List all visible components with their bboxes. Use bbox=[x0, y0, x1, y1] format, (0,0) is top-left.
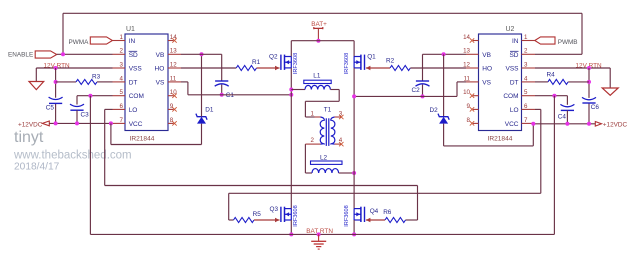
net label BAT RTN bbox=[306, 228, 333, 235]
svg-text:COM: COM bbox=[503, 93, 518, 100]
wire R1 to Q2 gate bbox=[257, 66, 280, 70]
svg-text:4: 4 bbox=[120, 75, 124, 82]
inductor L1 bbox=[304, 73, 331, 90]
transistor Q2 IRF3608 bbox=[269, 53, 299, 74]
U2 left pin labels bbox=[482, 52, 492, 87]
svg-text:C3: C3 bbox=[81, 112, 90, 119]
svg-text:7: 7 bbox=[120, 117, 124, 124]
capacitor C5 bbox=[46, 97, 63, 111]
wire line A LO gate drive to Q4 bbox=[105, 186, 418, 221]
wire BAT RTN rail bbox=[90, 233, 554, 235]
svg-text:IR21844: IR21844 bbox=[488, 135, 513, 142]
svg-text:Q3: Q3 bbox=[270, 206, 279, 213]
svg-text:VB: VB bbox=[156, 52, 165, 59]
wire COM down to BAT RTN rail bbox=[89, 96, 91, 235]
junction COM net bbox=[88, 94, 92, 98]
svg-text:IR21844: IR21844 bbox=[130, 135, 155, 142]
junction C5 on +12VDC rail bbox=[54, 121, 58, 125]
svg-text:13: 13 bbox=[463, 48, 470, 55]
junction C4 on +12VDC right rail bbox=[565, 122, 569, 126]
junction D1 on VB net bbox=[200, 52, 204, 56]
junction D2 feed on +12VDC right rail bbox=[531, 122, 535, 126]
wire vertical A 12V RTN down through C5 to +12VDC rail bbox=[55, 68, 57, 123]
svg-text:VSS: VSS bbox=[505, 66, 519, 73]
junction C3 on +12VDC rail bbox=[75, 121, 79, 125]
wire R2 to U2 pin 12 HO bbox=[410, 67, 466, 69]
wire C1 to VS net bbox=[221, 85, 223, 95]
svg-text:8: 8 bbox=[170, 117, 174, 124]
svg-text:L1: L1 bbox=[313, 73, 321, 80]
port PWMA bbox=[69, 37, 113, 46]
svg-text:PWMB: PWMB bbox=[558, 39, 578, 46]
wire U2 pin 2 to ENABLE rail bbox=[535, 53, 582, 55]
svg-text:R1: R1 bbox=[252, 59, 261, 66]
svg-text:VB: VB bbox=[482, 52, 491, 59]
capacitor C3 bbox=[70, 104, 89, 119]
svg-text:C4: C4 bbox=[558, 113, 567, 120]
ground arrow 12V RTN left bbox=[29, 82, 44, 90]
port ENABLE bbox=[8, 51, 57, 59]
svg-text:U2: U2 bbox=[506, 26, 515, 33]
wire Q2 source column down to Q3 drain bbox=[290, 68, 292, 209]
svg-text:7: 7 bbox=[524, 117, 528, 124]
wire COM right down to BAT RTN rail bbox=[553, 96, 555, 235]
wire R3 left bbox=[56, 81, 76, 83]
svg-text:U1: U1 bbox=[126, 26, 135, 33]
svg-text:Q4: Q4 bbox=[370, 208, 379, 215]
junction VS right at Q1 source column bbox=[352, 94, 356, 98]
power arrow +12VDC right bbox=[595, 122, 601, 127]
svg-text:C5: C5 bbox=[46, 104, 55, 111]
capacitor C4 bbox=[558, 104, 575, 120]
resistor R6 bbox=[383, 209, 405, 222]
junction 12V RTN / vertical A bbox=[54, 66, 58, 70]
svg-text:IRF3608: IRF3608 bbox=[344, 205, 350, 226]
junction C2 on VS right net bbox=[421, 94, 425, 98]
junction COM right net bbox=[552, 94, 556, 98]
T1 pin 4 stub no-connect bbox=[335, 137, 344, 146]
wire U1 pin 6 LO to line A bbox=[105, 109, 113, 185]
junction R4 to vertical B bbox=[587, 80, 591, 84]
svg-text:11: 11 bbox=[170, 75, 177, 82]
junction D1 feed on +12VDC rail bbox=[109, 121, 113, 125]
svg-text:6: 6 bbox=[120, 103, 124, 110]
U2 no-connect marks pins 14 10 9 8 bbox=[470, 38, 474, 125]
wire U1 pin 5 COM left bbox=[77, 96, 113, 105]
diode D2 zener bootstrap bbox=[430, 107, 450, 124]
svg-text:VSS: VSS bbox=[129, 66, 143, 73]
wire +12VDC to D1 anode bbox=[111, 123, 202, 144]
svg-text:3: 3 bbox=[120, 61, 124, 68]
svg-text:1: 1 bbox=[310, 111, 314, 118]
svg-text:LO: LO bbox=[510, 107, 519, 114]
wire R2 to Q1 gate bbox=[366, 66, 390, 70]
watermark tinyt bbox=[14, 129, 44, 146]
wire R3 to U1 pin 4 DT bbox=[97, 81, 113, 83]
junction Q3 source on BAT RTN bbox=[289, 232, 293, 236]
svg-text:R6: R6 bbox=[383, 209, 392, 216]
svg-text:2: 2 bbox=[524, 48, 528, 55]
svg-text:C6: C6 bbox=[591, 104, 600, 111]
wire D2 cathode up to VB right bbox=[443, 54, 445, 116]
svg-text:L2: L2 bbox=[320, 155, 328, 162]
svg-text:Q1: Q1 bbox=[367, 53, 376, 60]
svg-text:+12VDC: +12VDC bbox=[603, 121, 628, 128]
wire BAT+ rail bbox=[291, 41, 354, 57]
svg-text:ENABLE: ENABLE bbox=[8, 52, 33, 59]
capacitor C1 bbox=[215, 81, 235, 99]
svg-text:BAT+: BAT+ bbox=[311, 21, 327, 28]
svg-text:3: 3 bbox=[524, 61, 528, 68]
svg-text:10: 10 bbox=[463, 89, 470, 96]
svg-text:1: 1 bbox=[524, 34, 528, 41]
wire U2 pin 7 VCC to +12VDC right bbox=[535, 123, 595, 125]
ground BAT RTN earth symbol bbox=[311, 234, 326, 249]
junction L2 on Q1 source column bbox=[352, 171, 356, 175]
svg-text:DT: DT bbox=[129, 79, 138, 86]
wire U2 pin 13 VB to C2 bbox=[423, 54, 467, 81]
power arrow +12VDC left bbox=[42, 121, 49, 126]
capacitor C6 bbox=[582, 97, 599, 110]
T1 pin 2 stub bbox=[305, 137, 320, 144]
junction ground on BAT RTN bbox=[317, 232, 321, 236]
inductor L2 bbox=[311, 155, 343, 173]
svg-text:11: 11 bbox=[464, 75, 471, 82]
junction 12V RTN / vertical B right bbox=[587, 66, 591, 70]
wire L2 right to Q1 source column bbox=[339, 172, 355, 174]
svg-text:R3: R3 bbox=[92, 73, 101, 80]
svg-text:9: 9 bbox=[467, 103, 471, 110]
wire T1 pin 2 down to L2 bbox=[305, 144, 312, 173]
T1 pin 3 stub no-connect bbox=[335, 111, 344, 120]
svg-text:1: 1 bbox=[120, 34, 124, 41]
resistor R3 bbox=[76, 73, 101, 84]
U1 right pin labels bbox=[155, 52, 165, 87]
diode D1 zener bootstrap bbox=[196, 107, 214, 124]
junction D2 on VB right net bbox=[442, 52, 446, 56]
port PWMB bbox=[535, 37, 578, 46]
svg-text:IRF3608: IRF3608 bbox=[344, 53, 350, 74]
junction C6 on +12VDC right rail bbox=[587, 122, 591, 126]
capacitor C2 bbox=[412, 81, 430, 94]
svg-text:VCC: VCC bbox=[129, 121, 143, 128]
wire line B LO gate drive to Q3 bbox=[229, 193, 541, 220]
svg-text:PWMA: PWMA bbox=[69, 39, 90, 46]
wire L1 left bbox=[291, 89, 305, 91]
wire Q3 source to BAT RTN rail bbox=[290, 220, 292, 234]
svg-text:DT: DT bbox=[510, 79, 519, 86]
svg-text:tinyt: tinyt bbox=[14, 129, 44, 146]
U1 pin numbers right 8-14 bbox=[170, 34, 177, 124]
wire Q1 source column down to Q4 drain bbox=[353, 68, 355, 209]
svg-text:HO: HO bbox=[155, 66, 165, 73]
svg-text:2: 2 bbox=[310, 137, 314, 144]
svg-text:VCC: VCC bbox=[505, 121, 519, 128]
U1 pin numbers left 1-7 bbox=[120, 34, 124, 124]
junction C1 on VS net bbox=[220, 93, 224, 97]
svg-text:VS: VS bbox=[156, 79, 165, 86]
svg-text:4: 4 bbox=[524, 75, 528, 82]
svg-text:2018/4/17: 2018/4/17 bbox=[14, 162, 60, 173]
resistor R5 bbox=[234, 211, 262, 222]
transistor Q1 IRF3608 bbox=[344, 53, 376, 74]
net label +12VDC right bbox=[603, 121, 628, 128]
op-amp U1 IR21844 gate driver bbox=[125, 26, 168, 143]
U1 left pin labels bbox=[129, 38, 144, 128]
svg-text:R5: R5 bbox=[253, 211, 262, 218]
wire U2 pin 11 VS to Q1 source node bbox=[354, 82, 466, 97]
svg-text:+12VDC: +12VDC bbox=[18, 121, 43, 128]
svg-text:R2: R2 bbox=[386, 57, 395, 64]
svg-text:HO: HO bbox=[482, 66, 492, 73]
wire R6 to Q4 gate bbox=[366, 218, 385, 222]
svg-text:8: 8 bbox=[467, 117, 471, 124]
wire C4 to +12VDC right rail bbox=[566, 110, 568, 123]
svg-text:D1: D1 bbox=[205, 107, 214, 114]
wire U2 pin 3 VSS to 12V RTN right bbox=[535, 68, 610, 88]
svg-text:12: 12 bbox=[463, 61, 470, 68]
svg-text:D2: D2 bbox=[430, 107, 439, 114]
svg-text:C2: C2 bbox=[412, 87, 421, 94]
op-amp U2 IR21844 gate driver bbox=[479, 26, 522, 143]
wire L1 right to T1 pin 1 bbox=[305, 90, 339, 118]
svg-text:T1: T1 bbox=[324, 106, 332, 113]
T1 pin 1 stub bbox=[310, 111, 320, 118]
watermark www.thebackshed.com bbox=[13, 150, 132, 162]
svg-text:SD: SD bbox=[129, 52, 138, 59]
wire +12VDC rail to U1 pin 7 VCC bbox=[49, 122, 112, 124]
U2 right pin stubs bbox=[522, 41, 536, 124]
svg-text:9: 9 bbox=[170, 103, 174, 110]
transformer T1 bbox=[320, 106, 335, 145]
wire U2 pin 5 COM right bbox=[535, 96, 567, 105]
U2 pin numbers left 8-14 bbox=[463, 34, 470, 124]
wire vertical B 12V RTN down through C6 bbox=[588, 68, 590, 124]
resistor R4 bbox=[547, 72, 569, 85]
svg-text:12: 12 bbox=[170, 61, 177, 68]
wire D2 anode to +12VDC right rail bbox=[444, 124, 534, 146]
svg-text:5: 5 bbox=[120, 89, 124, 96]
wire ENABLE top rail bbox=[63, 13, 582, 54]
svg-text:IRF3608: IRF3608 bbox=[293, 205, 299, 226]
svg-text:13: 13 bbox=[170, 48, 177, 55]
svg-text:IN: IN bbox=[512, 38, 519, 45]
watermark date 2018/4/17 bbox=[14, 162, 60, 173]
svg-text:C1: C1 bbox=[226, 92, 235, 99]
svg-text:www.thebackshed.com: www.thebackshed.com bbox=[13, 150, 132, 162]
svg-text:IN: IN bbox=[129, 38, 136, 45]
svg-text:6: 6 bbox=[524, 103, 528, 110]
svg-text:14: 14 bbox=[463, 34, 470, 41]
svg-text:SD: SD bbox=[509, 52, 518, 59]
resistor R2 bbox=[386, 57, 410, 70]
wire R4 to U2 pin 4 DT bbox=[535, 81, 548, 83]
wire U1 pin 11 VS to Q2 source node bbox=[181, 82, 291, 95]
wire R5 to Q3 gate bbox=[254, 218, 280, 222]
wire U1 pin 12 HO to R1 bbox=[181, 67, 236, 69]
svg-text:R4: R4 bbox=[547, 72, 556, 79]
net label 12V RTN right bbox=[576, 62, 603, 69]
svg-text:Q2: Q2 bbox=[269, 53, 278, 60]
junction L1 left on Q2 source column bbox=[289, 88, 293, 92]
junction BAT+ rail bbox=[316, 39, 320, 43]
junction R3 to vertical A bbox=[54, 80, 58, 84]
wire D1 cathode up to VB bbox=[201, 54, 203, 116]
svg-text:LO: LO bbox=[129, 107, 138, 114]
wire 12V RTN rail to U1 pin 3 bbox=[36, 68, 112, 82]
wire U1 pin 13 VB to C1 bbox=[181, 54, 222, 81]
ground arrow 12V RTN right bbox=[602, 88, 618, 95]
transistor Q4 IRF3608 bbox=[344, 205, 378, 226]
svg-text:5: 5 bbox=[524, 89, 528, 96]
junction ENABLE rail bbox=[61, 52, 65, 56]
wire ENABLE to U1 pin 2 bbox=[57, 53, 113, 55]
wire C3 to +12VDC rail bbox=[76, 110, 78, 123]
svg-text:VS: VS bbox=[482, 79, 491, 86]
U1 left pin stubs bbox=[113, 41, 126, 124]
wire R4 right bbox=[568, 81, 589, 83]
U1 no-connect marks pins 14 10 9 8 bbox=[172, 38, 176, 125]
net label +12VDC left bbox=[18, 121, 43, 128]
transistor Q3 IRF3608 bbox=[270, 205, 299, 226]
net label 12V RTN left bbox=[44, 62, 71, 69]
net label BAT+ bbox=[311, 21, 327, 28]
junction VS at Q2 source column bbox=[289, 93, 293, 97]
wire Q4 source to BAT RTN rail bbox=[353, 220, 355, 234]
resistor R1 bbox=[236, 59, 260, 71]
U2 right pin labels bbox=[503, 38, 519, 128]
power symbol BAT+ bbox=[314, 27, 323, 41]
wire C2 to VS right net bbox=[422, 85, 424, 97]
svg-text:COM: COM bbox=[129, 93, 144, 100]
svg-text:2: 2 bbox=[120, 48, 124, 55]
U1 right pin stubs bbox=[168, 41, 181, 124]
U2 left pin stubs bbox=[466, 41, 479, 124]
junction Q4 source on BAT RTN bbox=[352, 232, 356, 236]
U2 pin numbers right 1-7 bbox=[524, 34, 528, 124]
svg-text:IRF3608: IRF3608 bbox=[293, 53, 299, 74]
wire U2 pin 6 LO to line B bbox=[535, 109, 541, 193]
